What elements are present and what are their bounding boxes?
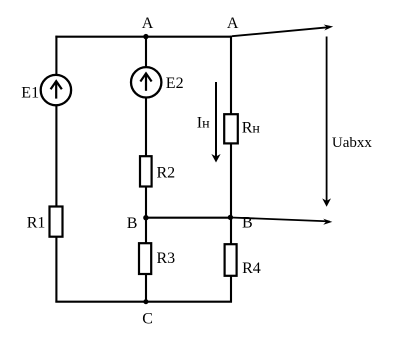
svg-text:Iн: Iн bbox=[197, 115, 210, 132]
voltage arrow Uabxx bbox=[326, 37, 328, 205]
wire bottom C rail bbox=[55, 301, 232, 303]
resistor R4 bbox=[225, 244, 237, 276]
svg-text:R1: R1 bbox=[27, 215, 46, 232]
resistor R1 bbox=[50, 207, 63, 237]
wire left branch lower bbox=[55, 236, 57, 303]
wire middle branch upper bbox=[145, 36, 147, 68]
svg-text:A: A bbox=[142, 15, 154, 32]
source E2 bbox=[131, 67, 161, 97]
wire left branch middle bbox=[55, 106, 57, 208]
svg-text:Rн: Rн bbox=[242, 120, 261, 137]
node B right junction dot bbox=[228, 215, 233, 220]
current arrow Iн bbox=[215, 82, 217, 159]
svg-text:R3: R3 bbox=[157, 250, 176, 267]
resistor Rн load bbox=[224, 114, 238, 143]
wire B rail bbox=[145, 217, 231, 219]
node C junction dot bbox=[143, 299, 148, 304]
wire top A rail bbox=[55, 36, 232, 38]
wire right branch R4-bottom bbox=[230, 275, 232, 303]
svg-text:A: A bbox=[227, 15, 239, 32]
svg-text:R4: R4 bbox=[242, 260, 261, 277]
resistor R3 bbox=[139, 243, 151, 274]
svg-text:C: C bbox=[142, 310, 153, 327]
wire left branch upper bbox=[55, 36, 57, 75]
source E1 bbox=[41, 75, 71, 105]
wire middle branch E2-R2 bbox=[145, 98, 147, 158]
svg-text:Uabxx: Uabxx bbox=[332, 135, 372, 151]
wire right branch upper bbox=[230, 36, 232, 115]
wire middle branch R2-B bbox=[145, 186, 147, 244]
arrow from B to open terminal bbox=[231, 218, 330, 222]
node A junction dot bbox=[143, 34, 148, 39]
svg-text:R2: R2 bbox=[157, 165, 176, 182]
wire right branch Rн-R4 bbox=[230, 143, 232, 245]
wire middle branch R3-C bbox=[145, 273, 147, 302]
svg-text:E2: E2 bbox=[166, 75, 184, 92]
resistor R2 bbox=[140, 156, 152, 186]
svg-text:B: B bbox=[127, 215, 138, 232]
node B left junction dot bbox=[143, 215, 148, 220]
svg-text:E1: E1 bbox=[21, 85, 39, 102]
arrow from A to open terminal bbox=[232, 27, 329, 36]
